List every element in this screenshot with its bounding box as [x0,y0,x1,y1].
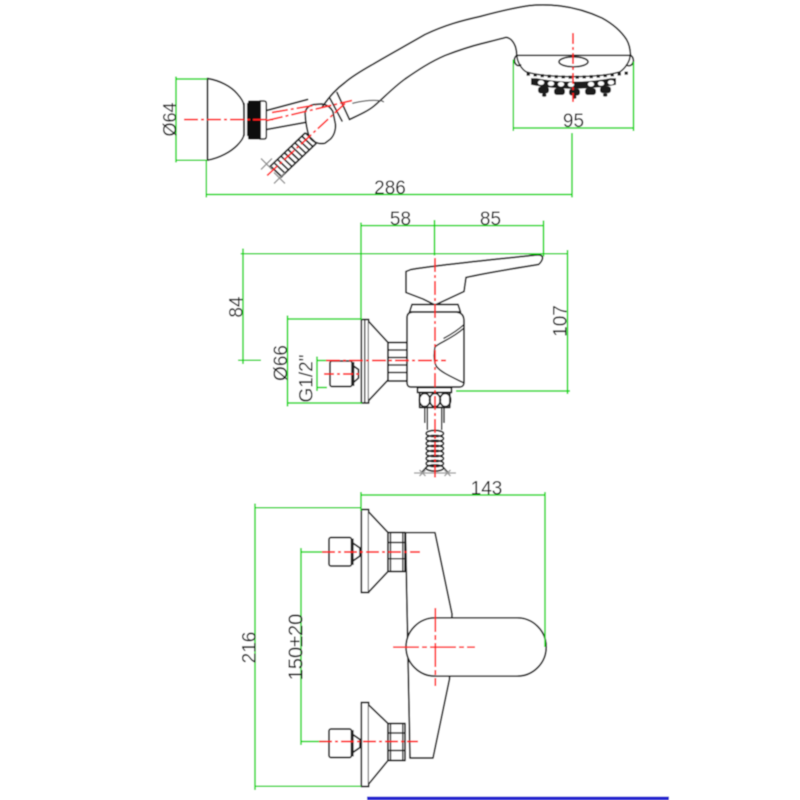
valve body (side) [407,312,464,387]
svg-text:Ø64: Ø64 [160,102,180,136]
dim 216 bracket [255,504,361,791]
supply fitting block (side) [330,361,359,387]
top escutcheon cone (front) [369,512,388,592]
hose coil spring [426,430,443,471]
head rim line [517,54,631,56]
escutcheon cone (side) [369,322,388,401]
holder black ring [248,101,266,140]
dim O66 bracket [288,316,363,407]
svg-text:107: 107 [551,305,572,337]
cap ring under lever [410,305,461,313]
dim 107 bracket [456,250,570,394]
head vertical axis [572,33,574,102]
top supply fitting block (front) [329,538,360,567]
wand top edge [323,5,631,107]
lever-top reference line (84/107 arms) [241,253,568,255]
holder collar lines [244,104,247,136]
svg-text:84: 84 [227,296,248,318]
wand axis diagonal [272,105,316,113]
hose break X marks (top drawing) [261,159,285,184]
svg-text:216: 216 [240,632,261,664]
head face sides and bottom arc [517,57,630,77]
svg-text:286: 286 [374,178,406,199]
svg-text:95: 95 [563,111,584,132]
top escutcheon plate (front) [361,510,368,593]
bottom fitting axis (front view) [319,741,418,743]
shaft between ring and cone [267,100,308,130]
nozzle feet [542,93,607,99]
face oval detail [559,57,588,67]
shaft axis diagonal [267,101,352,121]
svg-text:G1/2": G1/2" [297,355,318,403]
fitting axis horizontal (side view) [324,373,360,375]
top ribbed nut (front) [388,533,405,572]
handle center horizontal (front view) [393,646,475,648]
dim G1/2 bracket [317,357,327,392]
wall holder dome [208,79,245,161]
body (front) [406,533,453,758]
slotted dark band [531,78,616,89]
svg-text:58: 58 [390,209,411,230]
dim 143 line [361,492,545,647]
knurl nut (side) [419,393,450,408]
hose tube below nut [425,408,444,431]
threaded nipple (side) [388,343,407,382]
dim 286 line [206,133,572,198]
threaded hose stub (top drawing) [270,133,317,178]
dim 84 bracket [238,249,261,365]
wand bottom edge [350,37,517,119]
body S-curve detail [434,328,464,383]
dim O64 bracket [176,77,207,163]
bottom supply fitting block (front) [329,729,360,758]
handle center vertical (front view) [434,608,436,686]
bottom ribbed nut (front) [388,724,405,761]
svg-text:85: 85 [480,209,501,230]
dim 95 line [513,60,633,132]
lever handle (side) [406,255,543,305]
top fitting axis (front view) [322,551,420,553]
blue footer bar [367,797,669,800]
wand inner highlight line [353,100,384,103]
svg-text:143: 143 [471,479,503,500]
handle pill (front) [406,618,546,676]
nozzle nub row [538,86,611,95]
valve vertical axis (side view) [434,258,436,478]
dim 150+-20 bracket [301,548,326,745]
svg-text:Ø66: Ø66 [271,345,292,381]
hose break end [414,470,456,476]
collar joint lines on wand [330,93,350,122]
head rim left cap [514,55,520,65]
valve axis horizontal (side view) [326,360,446,362]
holder axis horizontal [184,119,274,121]
hose end flare [422,467,449,473]
bottom escutcheon cone (front) [369,705,388,784]
hose axis diagonal [266,104,345,177]
bottom escutcheon plate (front) [361,703,368,787]
head rim right cap [627,55,634,65]
cone hose connector [305,104,335,144]
dash row [527,72,628,79]
escutcheon plate (side) [361,320,368,404]
neck under body [418,388,452,393]
dim 58/85 line [361,220,544,319]
svg-text:150±20: 150±20 [286,614,308,681]
spray plate nozzle rows [527,72,628,99]
